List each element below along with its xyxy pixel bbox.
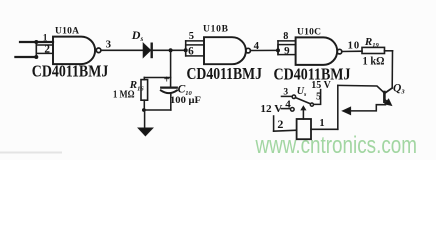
wire U10C input tie bar <box>277 41 279 55</box>
pin box around pin 9 label <box>278 45 296 55</box>
svg-text:1: 1 <box>319 118 324 129</box>
wire switch contact 3 stub <box>282 95 292 97</box>
svg-text:15 V: 15 V <box>311 80 331 91</box>
switch pivot contact circle 3 <box>292 95 296 99</box>
svg-text:1: 1 <box>43 34 48 44</box>
switch lever Us <box>296 98 311 104</box>
svg-text:3: 3 <box>283 87 288 97</box>
wire U10B output pin4 <box>250 49 278 51</box>
transistor Q3 base bar <box>383 92 386 102</box>
svg-text:4: 4 <box>285 98 291 110</box>
wire relay right vertical <box>337 85 339 129</box>
node junction dot after diode <box>169 48 173 52</box>
mechanical arrowhead pointing left <box>342 107 350 114</box>
svg-text:1 kΩ: 1 kΩ <box>363 55 385 67</box>
pin box around pin 6 label <box>186 45 204 56</box>
faint scan streak bottom left <box>0 152 62 154</box>
U10C output inversion bubble <box>337 49 342 54</box>
wire input pin2 U10A <box>15 56 36 58</box>
wire 12V terminal stub <box>273 116 275 131</box>
svg-text:12 V: 12 V <box>260 103 282 115</box>
svg-text:1 MΩ: 1 MΩ <box>113 89 135 101</box>
svg-text:8: 8 <box>283 31 288 42</box>
wire input pin1 U10A <box>20 41 53 43</box>
switch contact circle 4 <box>290 107 294 111</box>
capacitor C10 bottom lead <box>170 94 172 110</box>
diode Ds cathode bar <box>150 44 152 57</box>
wire contact 5 to 15V lead <box>314 90 321 105</box>
svg-text:6: 6 <box>188 46 194 58</box>
svg-text:CD4011BMJ: CD4011BMJ <box>187 64 263 83</box>
pin box around pin 2 label <box>36 45 53 53</box>
relay coil K body <box>297 119 311 139</box>
ground stem <box>144 110 146 129</box>
svg-text:3: 3 <box>106 39 112 51</box>
svg-text:U10B: U10B <box>203 25 229 35</box>
node junction dot pin1 <box>34 40 38 44</box>
wire RC top bar <box>144 77 170 79</box>
wire R19 to corner <box>385 50 393 52</box>
wire RC bottom bar <box>144 109 171 111</box>
svg-text:U10C: U10C <box>297 27 321 37</box>
diode Ds <box>143 43 150 57</box>
wire emitter zigzag <box>349 105 386 111</box>
node junction dot U10C input <box>276 48 280 52</box>
wire U10C output pin10 <box>342 50 362 52</box>
svg-text:100 μF: 100 μF <box>170 95 201 106</box>
wire U10B input tie bar <box>185 41 187 56</box>
svg-text:5: 5 <box>316 92 321 103</box>
op-amp U10B nand gate body <box>204 37 246 64</box>
wire relay bottom left segment <box>274 130 297 131</box>
U10B output inversion bubble <box>246 48 251 53</box>
wire junction down to RC <box>170 50 172 87</box>
node junction dot RC bottom <box>142 108 146 112</box>
svg-text:10: 10 <box>348 40 360 51</box>
wire base feed top edge <box>338 85 384 92</box>
U10A output inversion bubble <box>96 48 101 53</box>
wire input tie bar U10A <box>35 42 37 57</box>
svg-text:9: 9 <box>284 45 290 57</box>
resistor R16 body <box>141 80 148 101</box>
wire diode to U10B <box>153 49 186 51</box>
wire pin8 stub <box>278 40 296 42</box>
transistor Q3 emitter stroke <box>385 100 389 103</box>
svg-text:U10A: U10A <box>55 26 79 36</box>
resistor R16 top lead <box>143 78 145 80</box>
wire corner down to Q3 collector <box>391 51 393 88</box>
wire relay bottom right segment <box>311 128 338 130</box>
capacitor C10 bottom curved plate <box>161 90 177 93</box>
resistor R16 bottom lead <box>143 100 145 110</box>
ground <box>138 128 153 136</box>
switch contact circle 5 <box>310 103 313 106</box>
wire U10A output pin3 <box>101 49 143 51</box>
resistor R19 body <box>362 47 385 53</box>
svg-text:5: 5 <box>189 31 194 42</box>
op-amp U10A nand gate body <box>53 37 95 65</box>
transistor Q3 collector stroke <box>385 88 392 93</box>
node junction dot pin2 <box>34 55 38 59</box>
svg-text:www.cntronics.com: www.cntronics.com <box>255 132 417 159</box>
op-amp U10C nand gate body <box>296 37 338 65</box>
transistor Q3 emitter arrowhead <box>385 99 392 105</box>
svg-text:2: 2 <box>277 117 283 131</box>
relay actuation arrowhead up <box>301 106 306 110</box>
wire pin5 stub <box>186 40 204 42</box>
node junction dot U10B input <box>184 48 188 52</box>
svg-text:+: + <box>164 75 170 86</box>
svg-text:2: 2 <box>44 44 50 56</box>
capacitor C10 top plate <box>161 86 177 88</box>
svg-text:CD4011BMJ: CD4011BMJ <box>32 62 109 81</box>
wire relay coil top lead <box>302 110 304 120</box>
wire switch contact 4 stub <box>281 108 290 110</box>
svg-text:4: 4 <box>254 40 260 52</box>
